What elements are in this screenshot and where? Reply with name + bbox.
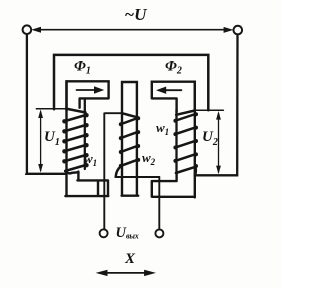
winding w1 left <box>65 109 86 174</box>
svg-text:X: X <box>124 251 136 267</box>
flux arrow F2 <box>163 89 181 91</box>
flux arrow F1 <box>77 89 96 91</box>
core right window outline <box>152 82 195 112</box>
w2 top lead <box>105 112 122 114</box>
wire left side <box>27 34 66 174</box>
terminal left bottom <box>100 229 108 237</box>
svg-text:Φ2: Φ2 <box>165 59 182 77</box>
terminal right bottom <box>155 229 163 237</box>
dimension U2 <box>196 109 223 111</box>
right leg outer edge <box>194 82 196 198</box>
displacement arrow X <box>104 272 148 274</box>
svg-text:Φ1: Φ1 <box>74 59 91 77</box>
wire right side <box>195 35 238 176</box>
svg-text:U2: U2 <box>202 129 218 148</box>
svg-text:~U: ~U <box>125 5 148 24</box>
svg-text:U1: U1 <box>44 129 60 148</box>
center plunger bar <box>122 82 139 196</box>
right coil inner edge <box>175 110 177 172</box>
w2 right lead down <box>158 177 160 229</box>
arrowhead left supply <box>31 27 41 33</box>
supply line ~U <box>38 29 227 31</box>
bottom left core piece <box>65 172 108 197</box>
core top yoke outline <box>54 55 208 110</box>
svg-text:w1: w1 <box>84 151 97 168</box>
winding w2 end loops <box>119 116 140 168</box>
svg-text:w2: w2 <box>142 150 156 167</box>
winding w1 right <box>176 111 196 176</box>
w2 bottom lead <box>116 176 160 178</box>
dimension U1 <box>36 108 65 110</box>
terminal left top <box>23 25 32 34</box>
w2 left lead down <box>103 113 105 229</box>
svg-text:w1: w1 <box>156 120 169 137</box>
left coil inner edge <box>84 100 86 170</box>
bottom right core piece <box>152 173 195 197</box>
winding w2 center <box>116 113 138 177</box>
core left window outline <box>67 81 109 110</box>
terminal right top <box>234 26 243 35</box>
left leg outer edge <box>65 81 67 196</box>
svg-text:Uвых: Uвых <box>116 225 139 241</box>
arrowhead right supply <box>224 27 234 33</box>
winding w1 left end loops <box>62 113 89 167</box>
winding w1 right end loops <box>173 112 198 168</box>
